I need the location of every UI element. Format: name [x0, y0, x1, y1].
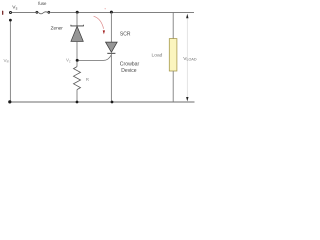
red fault-current arrowhead — [103, 30, 105, 34]
node bottom-left junction — [8, 100, 11, 103]
wire bottom rail — [10, 101, 194, 103]
fuse right terminal — [47, 11, 50, 14]
node SCR top junction — [110, 11, 113, 14]
svg-text:Vz: Vz — [66, 58, 71, 64]
svg-text:VLOAD: VLOAD — [183, 56, 197, 62]
svg-text:Crowbar: Crowbar — [120, 61, 140, 67]
wire SCR anode — [110, 12, 112, 42]
node zener top junction — [76, 11, 79, 14]
node Vz junction — [76, 59, 79, 62]
Vload measurement line — [186, 17, 188, 99]
svg-text:Zener: Zener — [51, 26, 64, 31]
SCR Q1 cathode bar — [107, 52, 115, 54]
wire node Vz to resistor — [76, 61, 78, 67]
load box — [169, 39, 177, 71]
wire resistor to bottom rail — [76, 90, 78, 102]
node Vs current marker (red tick) — [2, 11, 4, 14]
wire load bottom — [172, 71, 174, 102]
fuse element (wavy link) — [38, 12, 47, 14]
svg-text:fuse: fuse — [38, 1, 47, 6]
wire gate from node Vz to SCR — [79, 55, 112, 60]
Vload arrowhead top — [186, 14, 188, 18]
svg-text:Vin: Vin — [4, 58, 10, 64]
wire left branch vertical — [9, 21, 11, 102]
wire zener to node Vz — [76, 41, 78, 60]
wire top rail right segment — [50, 11, 194, 13]
red fault-current arrow start speck — [105, 8, 106, 9]
SCR Q1 triangle — [106, 42, 118, 52]
wire top rail left segment — [12, 11, 36, 13]
zener D1 cathode bar — [71, 25, 84, 26]
fuse left terminal — [36, 11, 39, 14]
wire zener anode from top rail — [76, 12, 78, 25]
svg-text:SCR: SCR — [120, 32, 131, 38]
zener D1 triangle — [71, 26, 83, 41]
node SCR bottom junction — [111, 101, 114, 104]
Vload arrowhead bottom — [186, 97, 188, 101]
svg-text:Vs: Vs — [12, 5, 17, 11]
terminal lower input — [9, 19, 12, 22]
wire load top — [172, 12, 174, 38]
wire SCR cathode to bottom rail — [110, 53, 112, 102]
svg-text:Device: Device — [121, 68, 137, 74]
resistor R zigzag — [74, 67, 81, 90]
red fault-current arrow curve — [94, 16, 104, 29]
terminal upper input — [9, 11, 12, 14]
svg-text:R: R — [86, 77, 90, 82]
node resistor bottom junction — [76, 101, 79, 104]
svg-text:Load: Load — [152, 53, 163, 59]
